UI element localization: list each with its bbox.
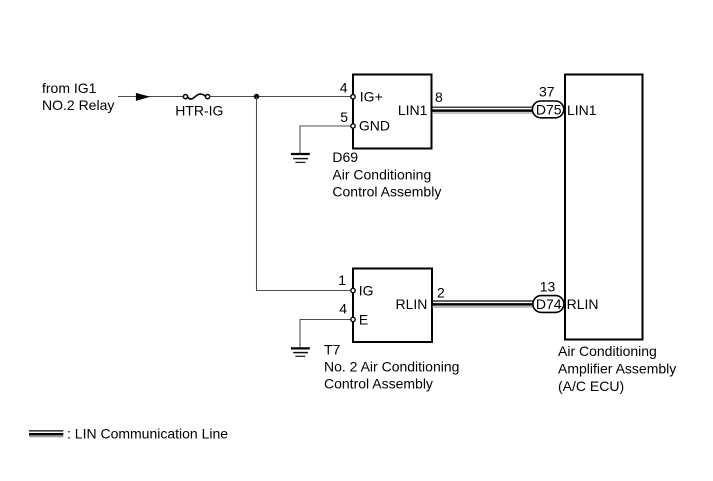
svg-text:Air Conditioning: Air Conditioning — [332, 166, 431, 182]
connector T7 box (No. 2 Air Conditioning Control Assembly) — [353, 269, 432, 343]
wire: fuse to D69 pin 4 — [210, 96, 351, 98]
wire: feed from IG1 relay to fuse — [118, 96, 184, 98]
svg-text:8: 8 — [435, 89, 443, 105]
svg-text:1: 1 — [338, 272, 346, 288]
svg-text:RLIN: RLIN — [395, 296, 427, 312]
svg-text:Air Conditioning: Air Conditioning — [558, 343, 657, 359]
svg-text:LIN1: LIN1 — [398, 102, 428, 118]
svg-text:E: E — [359, 311, 368, 327]
node D69 label block — [332, 149, 441, 200]
svg-text:Amplifier Assembly: Amplifier Assembly — [558, 361, 676, 377]
ground (lower) — [291, 348, 310, 356]
svg-text:IG: IG — [359, 282, 374, 298]
pin 4 of T7 — [351, 317, 355, 321]
LIN communication line D69 to D75 — [432, 107, 533, 113]
pin 5 of D69 — [351, 124, 355, 128]
ECU box (Air Conditioning Amplifier Assembly) — [565, 75, 643, 340]
fuse HTR-IG — [175, 94, 223, 118]
svg-text:: LIN Communication Line: : LIN Communication Line — [67, 426, 228, 442]
svg-text:Control Assembly: Control Assembly — [332, 184, 441, 200]
svg-text:D75: D75 — [536, 102, 562, 118]
svg-text:No. 2 Air Conditioning: No. 2 Air Conditioning — [324, 358, 459, 374]
svg-text:4: 4 — [339, 300, 347, 316]
svg-text:4: 4 — [340, 80, 348, 96]
svg-text:D69: D69 — [332, 149, 358, 165]
svg-text:HTR-IG: HTR-IG — [175, 102, 223, 118]
svg-text:GND: GND — [359, 118, 390, 134]
arrow: power flow direction — [136, 93, 150, 101]
pin 1 of T7 — [351, 288, 355, 292]
svg-text:LIN1: LIN1 — [567, 102, 597, 118]
svg-text:(A/C ECU): (A/C ECU) — [558, 378, 624, 394]
node: from IG1 NO.2 Relay label — [42, 80, 114, 113]
LIN communication line T7 to D74 — [432, 301, 533, 307]
connector D75 oval — [532, 84, 563, 118]
node: junction dot — [254, 94, 259, 99]
wire: ground wire from D69 pin 5 — [300, 126, 351, 153]
svg-text:from IG1: from IG1 — [42, 80, 97, 96]
wire: branch down from junction to T7 pin 1 — [257, 97, 351, 291]
svg-text:IG+: IG+ — [360, 89, 383, 105]
node T7 label block — [324, 342, 459, 392]
ground (upper) — [291, 154, 310, 162]
connector D74 oval — [533, 279, 564, 313]
svg-text:Control Assembly: Control Assembly — [324, 375, 433, 391]
svg-text:37: 37 — [539, 84, 555, 100]
svg-text:5: 5 — [340, 109, 348, 125]
svg-text:T7: T7 — [324, 342, 341, 358]
svg-text:NO.2 Relay: NO.2 Relay — [42, 97, 114, 113]
connector D69 box (Air Conditioning Control Assembly) — [353, 75, 432, 149]
legend: LIN communication line symbol — [29, 431, 63, 437]
pin 4 of D69 — [351, 95, 355, 99]
svg-text:RLIN: RLIN — [567, 296, 599, 312]
svg-text:D74: D74 — [536, 296, 562, 312]
wire: ground wire from T7 pin 4 — [300, 320, 351, 348]
node ECU label block — [558, 343, 676, 394]
svg-text:2: 2 — [437, 284, 445, 300]
svg-text:13: 13 — [540, 279, 556, 295]
